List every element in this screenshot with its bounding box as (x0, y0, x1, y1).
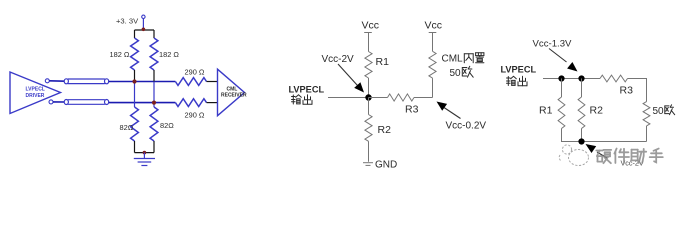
op-amp U2 CML receiver (218, 69, 247, 116)
resistor R1 (365, 52, 372, 79)
wire R1 to bottom rail (561, 129, 563, 142)
op-amp U1 LVPECL driver (10, 72, 61, 114)
driver output bubble Q+ (45, 79, 49, 83)
power +3.3V pin (142, 15, 145, 30)
wire 290 top to receiver (207, 81, 219, 83)
resistor 182 Ohm left (131, 38, 139, 70)
driver output bubble Q- (49, 100, 53, 104)
resistor R2 (middle) (365, 115, 372, 142)
resistor R2 (right) (578, 97, 585, 129)
watermark logo (559, 145, 588, 166)
svg-text:R1: R1 (539, 105, 553, 117)
svg-text:DRIVER: DRIVER (26, 93, 45, 99)
svg-text:R2: R2 (590, 105, 604, 117)
svg-text:CML: CML (442, 54, 464, 65)
svg-text:82Ω: 82Ω (120, 123, 134, 132)
svg-text:82Ω: 82Ω (160, 121, 174, 130)
annotation arrow Vcc-1.3V to node (549, 49, 578, 72)
junction node E (rail) (578, 138, 584, 144)
svg-text:290 Ω: 290 Ω (185, 111, 205, 120)
svg-text:GND: GND (375, 160, 397, 171)
svg-text:R1: R1 (376, 56, 390, 68)
svg-text:Vcc: Vcc (425, 20, 443, 32)
svg-text:R2: R2 (378, 124, 392, 136)
annotation arrow Vcc-0.2V to corner (437, 102, 461, 119)
svg-text:Vcc-2V: Vcc-2V (322, 54, 355, 65)
wire 50ohm to bottom rail (646, 126, 648, 142)
transmission line TL1 (top) (64, 79, 108, 84)
wire LVPECL to nodes (543, 78, 600, 80)
wire rail to R_182a (134, 30, 136, 38)
junction node A (top line) (132, 79, 136, 83)
svg-text:LVPECL: LVPECL (501, 65, 537, 75)
resistor 82 Ohm right (150, 107, 158, 141)
wire R3 to 50ohm branch (414, 97, 433, 99)
resistor CML internal 50 Ohm (429, 51, 436, 78)
junction node C (R1 tap) (558, 75, 564, 81)
svg-text:+3. 3V: +3. 3V (116, 16, 139, 25)
wire LVPECL input to node (328, 97, 369, 99)
resistor 182 Ohm right (150, 38, 158, 70)
resistor R3 (right) (600, 75, 628, 82)
wire R_182b down (153, 70, 155, 82)
svg-text:182 Ω: 182 Ω (110, 50, 130, 59)
ground symbol (134, 153, 155, 166)
svg-text:290 Ω: 290 Ω (185, 68, 205, 77)
wire top rail (135, 29, 155, 31)
svg-text:LVPECL: LVPECL (289, 85, 325, 95)
label shuchu (right) (507, 76, 517, 85)
resistor R1 (right) (558, 97, 565, 129)
wire node to R3 (369, 97, 388, 99)
wire bottom rail (561, 141, 647, 143)
junction node D (R2 tap) (578, 75, 584, 81)
wire 290 bottom to receiver (207, 102, 219, 104)
wire ground rail (135, 152, 155, 154)
wire driver Q- to T-line (53, 101, 65, 103)
junction +3.3V rail (142, 28, 146, 32)
resistor 290 Ohm bottom (175, 99, 206, 107)
junction node V1 (365, 94, 371, 100)
junction ground rail (143, 151, 147, 155)
svg-text:Vcc-0.2V: Vcc-0.2V (446, 121, 487, 132)
wire R2 to bottom rail (581, 129, 583, 142)
annotation arrow Vcc-2V to rail node (586, 144, 608, 158)
wire node C to R1 (561, 79, 563, 98)
power Vcc pin tick (right) (429, 32, 437, 34)
svg-text:182 Ω: 182 Ω (159, 50, 179, 59)
junction node B (bottom line) (152, 101, 156, 105)
wire R_82b to gnd rail (153, 141, 155, 153)
svg-text:R3: R3 (405, 104, 419, 116)
ground symbol GND (363, 163, 373, 166)
svg-text:LVPECL: LVPECL (26, 87, 45, 93)
svg-text:50: 50 (653, 106, 665, 117)
resistor R3 (middle) (388, 94, 415, 101)
wire rail to R_182b (153, 30, 155, 38)
wire Vcc to 50ohm (432, 33, 434, 52)
wire R3 to 50ohm corner (628, 79, 647, 102)
wire R1 to node (368, 78, 370, 98)
power Vcc pin tick (left) (364, 32, 372, 34)
wire R2 to GND (368, 141, 370, 162)
wire R_82a to gnd rail (134, 141, 136, 153)
annotation arrow Vcc-2V to node (338, 64, 364, 93)
wire node A to R_82a (134, 82, 136, 108)
label shuchu (middle) (292, 95, 302, 104)
wire node B column (153, 82, 155, 108)
resistor 290 Ohm top (175, 78, 206, 86)
transmission line TL2 (bottom) (64, 100, 108, 105)
svg-text:Vcc: Vcc (362, 20, 380, 32)
svg-text:Vcc-1.3V: Vcc-1.3V (533, 38, 573, 49)
resistor 50 Ohm (right) (643, 102, 650, 126)
wire bottom line to 290ohm (109, 102, 176, 104)
wire top line to 290ohm (109, 81, 176, 83)
resistor 82 Ohm left (131, 107, 139, 141)
wire node D to R2 (581, 79, 583, 98)
wire node to R2 (368, 98, 370, 115)
wire 50ohm to R3 corner (432, 78, 434, 97)
watermark text yingjian zhushou (596, 149, 663, 164)
wire driver Q+ to T-line (49, 80, 65, 82)
svg-text:RECEIVER: RECEIVER (221, 92, 247, 98)
wire R_182a to node A (134, 70, 136, 82)
wire Vcc to R1 (368, 33, 370, 52)
svg-text:R3: R3 (620, 85, 634, 97)
svg-text:50: 50 (450, 68, 462, 79)
